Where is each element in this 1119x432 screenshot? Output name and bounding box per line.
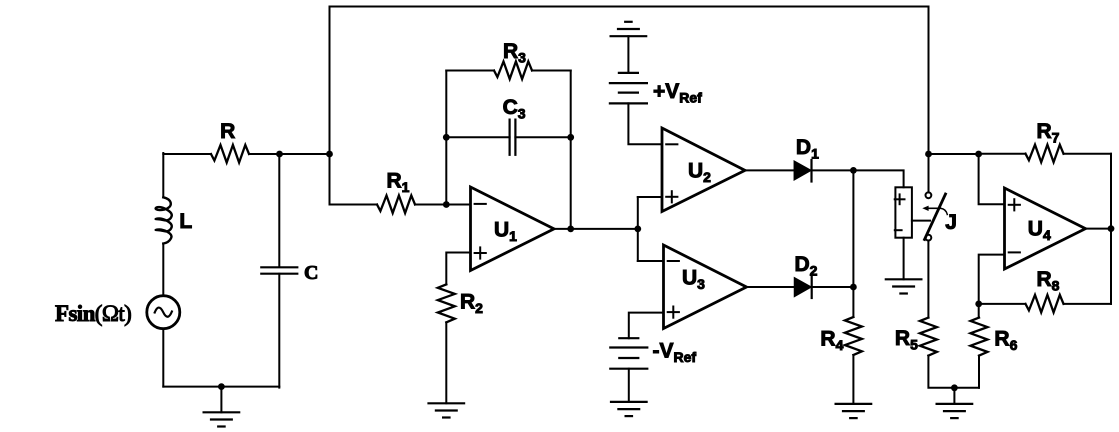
svg-text:R1: R1: [387, 170, 410, 196]
battery +VRef: [610, 73, 647, 104]
wire R8 right lead: [1064, 303, 1112, 305]
svg-text:U3: U3: [682, 266, 705, 292]
diode D1: [794, 160, 811, 182]
ground (box): [886, 279, 922, 293]
wire feedback right vertical: [570, 71, 572, 230]
wire stem to ground: [953, 388, 955, 404]
node: R/C junction: [276, 151, 283, 158]
svg-text:C: C: [304, 262, 318, 284]
wire node down to U4 plus input: [979, 154, 1005, 204]
svg-text:R: R: [220, 120, 235, 143]
wire U4 minus input down: [979, 255, 1005, 318]
wire switch bottom to R5: [927, 241, 929, 318]
resistor R5: [920, 318, 937, 356]
node: U1 inverting input / feedback: [443, 201, 450, 208]
node: top-rail / R1 branch: [326, 151, 333, 158]
wire R7 line left: [979, 153, 1026, 155]
wire U2 minus input to +VRef: [628, 103, 662, 144]
ground (-VRef): [611, 402, 647, 416]
wire split vertical: [637, 197, 639, 261]
node: U1 output / feedback: [567, 226, 574, 233]
node: D2 output: [850, 284, 857, 291]
wire to U3 minus input: [638, 260, 664, 262]
node: C3 left: [443, 134, 450, 141]
wire R5 bottom: [928, 356, 979, 388]
wire D1 node to box: [853, 170, 903, 187]
wire C3 left lead: [446, 136, 509, 138]
node: C3 right: [567, 134, 574, 141]
ground (R5/R6): [937, 404, 973, 418]
polarized box component: [895, 187, 930, 237]
wire U3 output: [747, 286, 795, 288]
svg-text:U1: U1: [494, 219, 517, 245]
wire D2 to node: [812, 286, 854, 288]
wire top rail: [330, 7, 929, 155]
ground (inverted, +VRef): [611, 22, 647, 36]
wire battery to inverted ground: [627, 36, 629, 73]
wire bottom rail: [163, 386, 279, 388]
U3 non-inverting sign: [668, 311, 679, 313]
wire ground stem: [220, 387, 222, 413]
wire R7 right to right rail: [1064, 153, 1112, 155]
resistor R8: [1026, 295, 1064, 313]
wire D1 node down to D2 node: [852, 170, 854, 317]
wire left-loop top: L top to R left: [163, 153, 211, 155]
wire R1 to inverting input node: [415, 204, 471, 206]
wire to U2 plus input: [638, 196, 662, 198]
node: switch top: [925, 151, 932, 158]
wire top rail to switch: [928, 154, 930, 192]
svg-text:D2: D2: [795, 253, 818, 279]
svg-text:Fsin(Ωt): Fsin(Ωt): [55, 301, 131, 326]
wire L bottom to source: [162, 244, 164, 296]
svg-text:C3: C3: [503, 96, 526, 122]
capacitor C3: [510, 120, 516, 155]
wire feedback top right segment: [532, 70, 571, 72]
node: U4 output: [1108, 225, 1115, 232]
node: U2/U3 input split: [634, 226, 641, 233]
resistor R7: [1026, 145, 1064, 163]
battery -VRef: [610, 338, 647, 369]
node: bottom ground junction: [951, 384, 958, 391]
ground (source loop): [204, 412, 240, 426]
inductor L: [156, 197, 172, 243]
U1 non-inverting sign: [475, 252, 486, 254]
wire R8 left lead: [979, 303, 1026, 305]
wire C3 right lead: [515, 136, 570, 138]
resistor R2: [438, 284, 455, 322]
wire R right to node: [249, 153, 280, 155]
svg-text:-VRef: -VRef: [653, 340, 697, 366]
wire feedback top left segment: [446, 70, 494, 72]
source Fsin: [147, 296, 180, 329]
resistor R4: [845, 317, 862, 355]
node: D1 output: [850, 167, 857, 174]
op-amp U4: [1005, 188, 1086, 269]
wire node to top-rail corner: [280, 153, 330, 155]
node: ground junction: [218, 383, 225, 390]
U1 inverting sign: [475, 203, 486, 205]
wire U1 output: [554, 228, 638, 230]
resistor R1: [377, 196, 415, 214]
wire node down to capacitor C: [278, 154, 280, 267]
wire U4 output: [1086, 228, 1112, 230]
U3 inverting sign: [668, 260, 679, 262]
wire right rail vertical: [1110, 154, 1112, 304]
svg-text:+VRef: +VRef: [653, 80, 702, 106]
svg-text:J: J: [945, 211, 957, 234]
svg-text:U4: U4: [1028, 218, 1051, 244]
svg-text:R6: R6: [994, 327, 1017, 353]
svg-text:R2: R2: [460, 291, 483, 317]
wire switch node to R7 node: [929, 153, 979, 155]
svg-text:U2: U2: [688, 159, 711, 185]
wire U1 plus input: [446, 253, 470, 285]
svg-text:D1: D1: [796, 136, 819, 162]
resistor R6: [971, 318, 988, 356]
svg-text:R7: R7: [1037, 120, 1060, 146]
ground (R4): [836, 404, 872, 418]
wire R6 bottom: [978, 356, 980, 388]
U4 inverting sign: [1009, 251, 1020, 253]
U2 inverting sign: [666, 143, 677, 145]
capacitor C: [261, 267, 297, 273]
diode D2: [795, 277, 812, 299]
wire U2 output: [745, 169, 794, 171]
op-amp U1: [471, 187, 555, 271]
wire C bottom to bottom rail: [278, 274, 280, 388]
wire U3 plus input to -VRef: [629, 313, 664, 339]
wire feedback left vertical: [445, 71, 447, 205]
op-amp U2: [662, 128, 745, 212]
svg-text:R4: R4: [820, 327, 843, 353]
wire top node down to R1 line: [330, 154, 378, 205]
wire source bottom to bottom rail: [162, 329, 164, 387]
svg-text:R8: R8: [1037, 268, 1060, 294]
switch J: [922, 192, 947, 240]
node: R8 / R6 junction: [975, 301, 982, 308]
op-amp U3: [664, 245, 747, 329]
ground (R2): [429, 403, 465, 417]
U4 non-inverting sign: [1009, 204, 1020, 206]
node: R7 / U4 plus branch: [975, 151, 982, 158]
wire D1 to node: [812, 169, 854, 171]
wire R2 to ground: [445, 322, 447, 403]
svg-text:L: L: [179, 210, 192, 233]
wire R4 to ground: [852, 355, 854, 404]
U2 non-inverting sign: [666, 196, 677, 198]
wire battery to ground: [628, 369, 630, 402]
svg-text:R3: R3: [503, 40, 526, 66]
resistor R3: [494, 62, 532, 80]
svg-text:R5: R5: [895, 327, 918, 353]
wire box to ground: [903, 238, 905, 280]
resistor R: [211, 145, 249, 163]
